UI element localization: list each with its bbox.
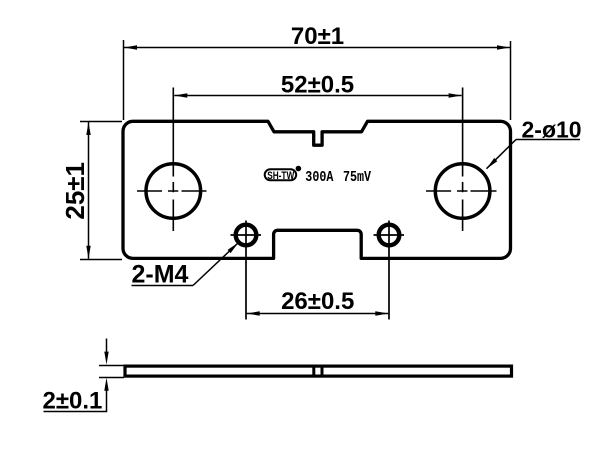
svg-text:25±1: 25±1: [60, 162, 90, 220]
svg-text:2±0.1: 2±0.1: [43, 388, 103, 415]
svg-text:26±0.5: 26±0.5: [281, 288, 354, 315]
svg-text:52±0.5: 52±0.5: [281, 72, 354, 99]
svg-text:2-M4: 2-M4: [132, 261, 189, 289]
svg-text:70±1: 70±1: [291, 23, 344, 50]
svg-text:75mV: 75mV: [343, 170, 372, 187]
svg-text:300A: 300A: [305, 170, 334, 187]
svg-text:SH-TW: SH-TW: [267, 170, 295, 182]
svg-text:2-ø10: 2-ø10: [522, 117, 582, 143]
